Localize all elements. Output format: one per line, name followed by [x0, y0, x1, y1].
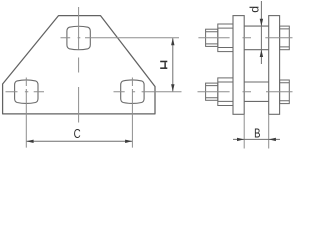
- dimension d leader line: [260, 1, 262, 64]
- dimension C line: [27, 140, 133, 142]
- svg-text:C: C: [74, 128, 81, 141]
- dimension B left arrow: [237, 138, 244, 141]
- centerline: plate vertical axis: [78, 7, 80, 123]
- dimension H line: [172, 38, 174, 91]
- extension line: B right: [268, 115, 270, 149]
- svg-text:B: B: [254, 127, 260, 141]
- extension line: B left: [243, 115, 245, 149]
- dimension H lower arrow: [171, 84, 174, 91]
- dimension C right arrow: [125, 140, 132, 143]
- side view: bottom washer: [218, 78, 233, 106]
- side view: top bolt head: [206, 29, 218, 46]
- centerline: bottom-right hole horizontal (H lower extension): [114, 91, 182, 93]
- extension line: bottom-right hole vertical (C): [131, 78, 133, 148]
- side view: top bolt cylinder between slabs: [244, 26, 269, 50]
- plate outline (trapezoid front view): [3, 16, 155, 114]
- side view: top washer: [218, 24, 233, 52]
- side view: top right nut: [280, 26, 290, 50]
- dimension B line: [233, 138, 280, 140]
- centerline: top hole horizontal (H upper extension): [61, 37, 180, 39]
- bottom-left hole nut (barrel shape): [15, 80, 38, 104]
- dimension d upper arrow: [260, 19, 263, 26]
- dimension C left arrow: [26, 140, 33, 143]
- top hole nut (barrel shape): [67, 26, 90, 50]
- dimension B right arrow: [269, 138, 276, 141]
- side view: bottom right nut: [280, 80, 290, 104]
- bottom-right hole nut (barrel shape): [121, 80, 144, 104]
- svg-text:d: d: [248, 6, 262, 13]
- side view: bottom bolt head: [206, 83, 218, 100]
- dimension H upper arrow: [171, 38, 174, 45]
- dimension d lower arrow: [260, 50, 263, 57]
- side view: bottom bolt cylinder between slabs: [244, 82, 269, 101]
- centerline: side view top bolt axis: [198, 37, 292, 39]
- side view: right slab: [269, 16, 280, 115]
- side view: left slab: [233, 16, 244, 115]
- extension line: bottom-left hole vertical (C): [25, 78, 27, 148]
- centerline: side view bottom bolt axis: [198, 91, 293, 93]
- label H: [160, 61, 167, 69]
- centerline: bottom-left hole horizontal: [6, 91, 45, 93]
